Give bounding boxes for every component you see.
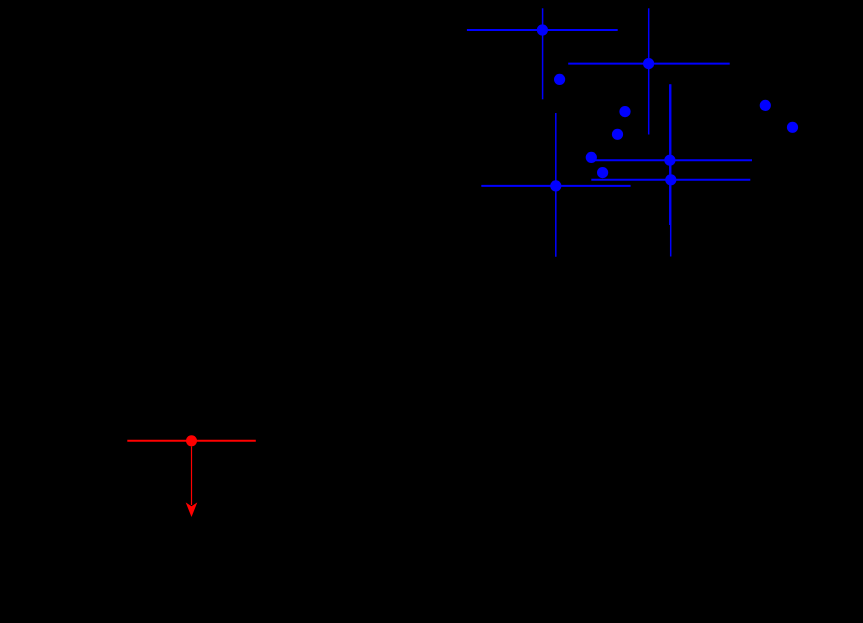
plain dot D2 (619, 106, 630, 117)
plain dot D3 (612, 129, 623, 140)
red upper-limit marker (186, 435, 197, 446)
data point P5 error bars (481, 113, 630, 257)
data point P1 error bars (blue, top-left of cluster) (467, 8, 618, 99)
plain dot D4 (760, 100, 771, 111)
data point P4 error bars (591, 84, 750, 256)
red downward arrow head (186, 502, 198, 517)
data point P3 error bars (595, 84, 753, 225)
red downward arrow stem (191, 446, 193, 505)
data point P3 marker (664, 155, 675, 166)
data point P1 marker (537, 24, 548, 35)
plain dot D6 (586, 152, 597, 163)
data point P2 error bars (568, 8, 730, 134)
plain dot D5 (787, 122, 798, 133)
data point P2 marker (643, 58, 654, 69)
red upper-limit point horizontal error bar (127, 440, 256, 442)
data point P4 marker (665, 174, 676, 185)
data point P5 marker (550, 180, 561, 191)
plain dot D7 (597, 167, 608, 178)
plain dot D1 (554, 74, 565, 85)
